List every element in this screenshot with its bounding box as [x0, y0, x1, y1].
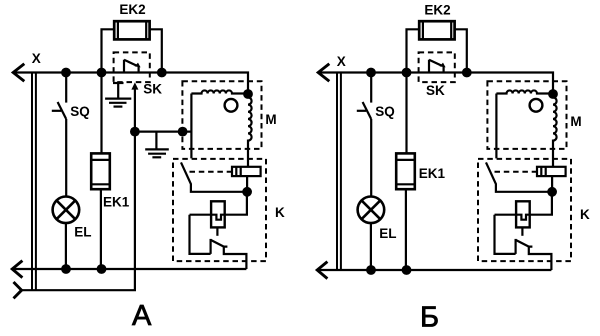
wire: connector X1 double line: [32, 73, 36, 291]
relay K actuator (rectangle with notch): [190, 192, 247, 254]
switch SQ (B): [357, 73, 371, 197]
node: junction dot (probe line / mid wire): [130, 127, 140, 137]
relay K contact (top, normally open): [486, 162, 552, 191]
svg-text:SK: SK: [143, 82, 162, 97]
thermal element (heater) in relay K: [537, 167, 566, 192]
connector X1 arrow (top): [13, 64, 24, 82]
node: junction dot (EK2 right / top bus): [157, 68, 167, 78]
node: junction dot (relay K): [242, 187, 252, 197]
probe arrow (up, under SK): [131, 82, 138, 89]
svg-text:EL: EL: [74, 225, 91, 240]
lamp EL: [53, 197, 80, 224]
node: junction dot (EK1-EK2 branch / top bus): [97, 68, 107, 78]
svg-text:K: K: [275, 205, 285, 220]
wire: connector X2 double line: [337, 73, 341, 271]
switch SK (thermostat) dashed enclosure: [419, 52, 455, 82]
relay K dashed enclosure: [478, 159, 571, 261]
motor M stator winding (horizontal coil): [191, 90, 248, 93]
ground (SK case): [105, 83, 131, 107]
motor M stator winding (horizontal coil): [496, 90, 553, 93]
connector arrow (bottom bus, left): [317, 262, 327, 279]
motor M dashed enclosure: [487, 81, 566, 149]
heater EK1: [91, 73, 110, 270]
svg-text:M: M: [570, 114, 581, 129]
relay K contact (top, normally open): [181, 162, 247, 191]
svg-text:EK1: EK1: [419, 166, 446, 181]
ground (mid wire): [145, 132, 169, 158]
heater EK2: [102, 21, 162, 72]
relay K dashed enclosure: [173, 159, 266, 261]
thermal element (heater) in relay K: [232, 167, 261, 192]
heater EK2: [407, 21, 467, 72]
svg-text:M: M: [265, 112, 276, 127]
wire: top supply bus to motor feed: [318, 73, 553, 95]
relay K contact (bottom) and lead to bottom bus: [211, 239, 247, 269]
svg-text:X: X: [32, 51, 41, 66]
svg-text:SQ: SQ: [375, 104, 395, 119]
motor M rotor winding (vertical coil) and lead to heater: [553, 94, 557, 167]
node: junction dot (SQ branch / top bus): [366, 68, 376, 78]
svg-text:А: А: [132, 300, 152, 332]
node: junction dot (SQ branch / top bus): [61, 68, 71, 78]
node: junction dot (relay K): [547, 187, 557, 197]
svg-text:EL: EL: [379, 226, 396, 241]
node: junction dot (motor feed): [548, 89, 558, 99]
svg-text:SQ: SQ: [70, 104, 90, 119]
svg-text:EK2: EK2: [119, 2, 145, 17]
wire: motor left lead down to relay contact: [190, 94, 192, 159]
node: junction dot (mid wire / motor frame): [178, 127, 188, 137]
relay K contact (bottom) and lead to bottom bus: [516, 239, 552, 270]
motor M rotor (circle): [225, 99, 238, 112]
node: junction dot (EK1 / bottom bus): [402, 265, 412, 275]
relay K actuator (rectangle with notch): [495, 192, 552, 254]
wire: bottom return bus: [12, 268, 246, 270]
svg-text:Б: Б: [420, 301, 439, 333]
lamp EL: [358, 197, 385, 224]
switch SK contact: [429, 60, 444, 73]
wire: top supply bus to motor feed: [13, 73, 248, 95]
node: junction dot (EK1-EK2 branch / top bus): [402, 68, 412, 78]
svg-text:EK2: EK2: [424, 3, 450, 18]
connector arrow (bottom bus, left): [12, 261, 22, 278]
motor M rotor (circle): [530, 99, 543, 112]
connector X2 arrow (top): [318, 64, 329, 82]
wire: motor left lead down to relay contact: [495, 94, 497, 159]
wire: mid wire to motor frame: [135, 131, 192, 133]
wire: EL to bottom bus: [370, 223, 372, 270]
motor M dashed enclosure: [182, 81, 261, 149]
switch SQ (A): [52, 73, 66, 197]
svg-text:X: X: [337, 54, 346, 69]
mechanical link (dashed) contact to thermal element: [495, 171, 537, 173]
node: junction dot (EK1 / bottom bus): [97, 264, 107, 274]
node: junction dot (motor feed): [243, 89, 253, 99]
wire: bottom return bus: [317, 269, 551, 271]
node: junction dot (EL / bottom bus): [61, 264, 71, 274]
wire: EL to bottom bus: [65, 223, 67, 269]
svg-text:K: K: [580, 207, 590, 222]
mechanical link (dashed) contact to thermal element: [190, 171, 232, 173]
svg-text:SK: SK: [426, 83, 445, 98]
connector arrow (bottom return, right-pointing): [14, 282, 22, 298]
node: junction dot (EL / bottom bus): [366, 265, 376, 275]
motor M rotor winding (vertical coil) and lead to heater: [248, 94, 252, 167]
wire: probe line down to return: [22, 89, 135, 291]
node: junction dot (EK2 right / top bus): [462, 68, 472, 78]
svg-text:EK1: EK1: [103, 194, 130, 209]
switch SK contact: [124, 60, 139, 73]
switch SK (thermostat) dashed enclosure: [114, 52, 150, 82]
heater EK1: [396, 73, 415, 271]
